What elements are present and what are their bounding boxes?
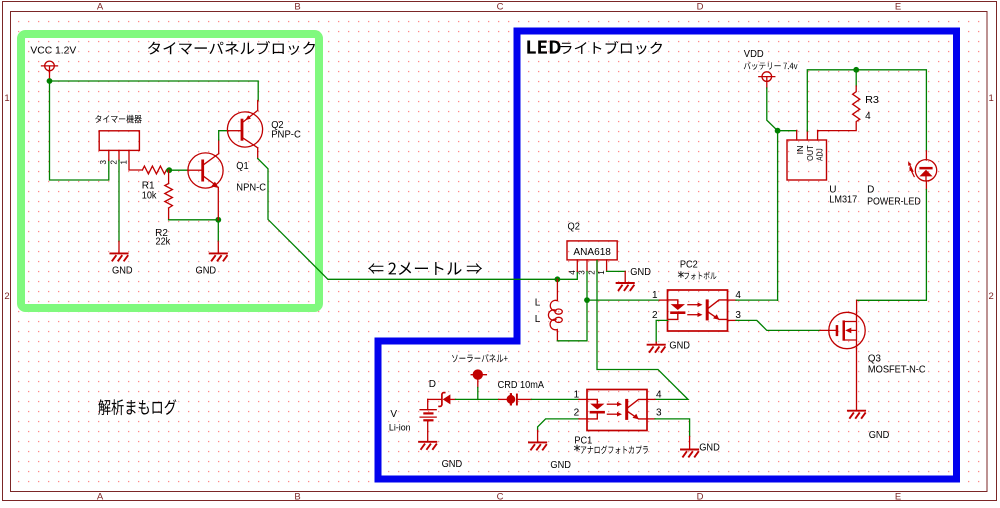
diode D POWER-LED <box>908 151 937 190</box>
svg-text:L: L <box>535 298 541 309</box>
Q3 source pin to GND <box>856 349 858 411</box>
svg-text:10k: 10k <box>142 191 158 202</box>
diode D <box>428 393 456 407</box>
inductor L coil <box>550 300 557 311</box>
transistor Q3 MOSFET-N <box>820 312 865 348</box>
svg-text:L: L <box>535 314 541 325</box>
svg-text:B: B <box>294 492 300 503</box>
ground stem ANA618 <box>624 271 626 283</box>
module ANA618 box <box>567 241 617 260</box>
PC1 pin1 lead <box>579 398 587 400</box>
svg-text:2: 2 <box>989 291 994 302</box>
wire CRD to PC1 pin1 <box>532 398 580 400</box>
PC2 pin1 lead <box>660 299 668 301</box>
svg-text:NPN-C: NPN-C <box>236 182 266 193</box>
ground GND PC1 pin3 <box>681 450 698 457</box>
optocoupler PC1 <box>587 390 647 431</box>
svg-text:2: 2 <box>109 160 118 165</box>
wire to ANA618 pin4 <box>557 271 577 279</box>
svg-text:GND: GND <box>869 430 890 441</box>
wire PC2 pin4 to VDD rail <box>736 299 778 301</box>
svg-text:2: 2 <box>652 310 658 321</box>
svg-text:R3: R3 <box>865 95 879 106</box>
ANA618 pin stubs <box>577 260 606 272</box>
svg-text:A: A <box>97 492 104 503</box>
wire Q1 collector to Q2 base <box>219 131 228 140</box>
svg-text:1: 1 <box>119 160 128 165</box>
ground stem left <box>118 241 120 253</box>
svg-text:CRD 10mA: CRD 10mA <box>498 380 545 391</box>
ground GND PC1 <box>529 442 546 449</box>
svg-text:D: D <box>867 185 874 196</box>
svg-text:V: V <box>390 409 397 420</box>
svg-text:2: 2 <box>4 291 9 302</box>
wire ANA618 pin1 to GND <box>607 270 626 272</box>
svg-text:D: D <box>697 2 704 13</box>
svg-text:POWER-LED: POWER-LED <box>867 196 921 207</box>
Q1 collector pin <box>218 140 220 154</box>
Q2 collector pin <box>257 148 259 159</box>
wire ANA618 pin2 down to PC1 pin4 <box>597 261 688 400</box>
PC1 pin4 lead <box>647 398 655 400</box>
transistor Q2 PNP <box>227 110 262 147</box>
svg-text:GND: GND <box>630 267 651 278</box>
label バッテリー 7.4v <box>744 62 798 70</box>
svg-text:PNP-C: PNP-C <box>271 129 301 140</box>
node solar panel terminal <box>473 369 483 379</box>
PC1 pin3 lead <box>647 418 655 420</box>
svg-text:E: E <box>895 2 901 13</box>
svg-text:3: 3 <box>656 407 662 418</box>
svg-text:4: 4 <box>656 389 662 400</box>
ground stem PC1 pin3 <box>689 436 691 449</box>
wire inductor bottom to ANA618 pin3 <box>557 271 587 340</box>
svg-text:B: B <box>294 2 300 13</box>
note 解析まもログ <box>98 399 176 415</box>
timer pin stubs <box>109 150 143 170</box>
svg-text:GND: GND <box>669 340 690 351</box>
Q2 emitter pin <box>257 101 259 111</box>
svg-text:Q2: Q2 <box>568 222 581 233</box>
inductor L leads <box>556 279 558 341</box>
wire junction to Q1 base <box>169 169 188 171</box>
svg-text:PC2: PC2 <box>680 259 698 270</box>
wire junction to LM317 IN <box>778 130 797 132</box>
wire solar node to main wire <box>477 388 479 400</box>
ground GND battery <box>419 442 436 449</box>
node junction R3 top <box>853 67 859 73</box>
svg-text:1: 1 <box>652 290 658 301</box>
resistor R2 <box>165 184 173 209</box>
resistor R1 <box>142 166 166 174</box>
svg-text:VCC 1.2V: VCC 1.2V <box>30 46 76 57</box>
ground GND Q3 <box>848 411 865 418</box>
title タイマーパネルブロック <box>148 41 315 55</box>
svg-text:Li-ion: Li-ion <box>389 422 411 433</box>
svg-text:C: C <box>497 492 504 503</box>
svg-text:LM317: LM317 <box>829 194 857 205</box>
wire junction down to PC2 pin4 <box>777 131 779 301</box>
wire PC2 pin3 to Q3 gate <box>736 320 820 330</box>
svg-text:22k: 22k <box>156 236 172 247</box>
node junction VDD/IN <box>775 128 781 134</box>
svg-text:D: D <box>429 379 436 390</box>
timer box タイマー機器 <box>99 131 139 151</box>
wire VCC down to timer pin3 <box>50 81 109 180</box>
svg-text:Q3: Q3 <box>868 353 881 364</box>
LM317 pin stubs <box>797 130 818 140</box>
ground GND ANA618 <box>617 283 634 290</box>
wire to PC2 pin1 <box>587 299 660 301</box>
svg-text:GND: GND <box>699 442 720 453</box>
svg-text:1: 1 <box>4 93 9 104</box>
transistor Q1 NPN <box>188 153 223 188</box>
PC2 pin3 lead <box>728 319 737 321</box>
ground stem right <box>217 241 219 253</box>
battery V Li-ion <box>420 399 436 441</box>
wire PC2 pin2 to GND <box>656 320 667 342</box>
wire Q2 collector to ANA618 (2 meter link) <box>258 159 558 280</box>
Q1 emitter pin <box>217 187 219 220</box>
svg-text:4: 4 <box>865 111 871 122</box>
svg-text:ADJ: ADJ <box>815 148 825 161</box>
asterisk mark <box>679 272 684 278</box>
node junction R1/R2/Q1 <box>166 167 172 173</box>
svg-text:1: 1 <box>597 270 606 275</box>
wire PC1 pin2 to GND <box>538 419 579 430</box>
wire LED to Q3 drain <box>857 190 927 301</box>
svg-text:E: E <box>895 492 901 503</box>
regulator U LM317 box <box>787 140 827 180</box>
svg-text:1: 1 <box>989 93 994 104</box>
svg-text:1: 1 <box>574 390 580 401</box>
node junction Q1 emitter <box>215 217 221 223</box>
svg-text:PC1: PC1 <box>574 435 592 446</box>
svg-text:GND: GND <box>442 459 463 470</box>
ground stem PC1 <box>537 430 539 442</box>
svg-text:GND: GND <box>550 460 571 471</box>
svg-text:MOSFET-N-C: MOSFET-N-C <box>868 365 926 376</box>
solar node stem <box>477 379 479 388</box>
svg-text:C: C <box>497 2 504 13</box>
svg-text:D: D <box>697 492 704 503</box>
LED light block (blue frame) <box>378 31 957 479</box>
wire timer pin2 to GND <box>118 160 120 241</box>
svg-text:Q1: Q1 <box>236 161 249 172</box>
label タイマー機器 <box>95 115 142 124</box>
svg-text:ANA618: ANA618 <box>573 247 611 258</box>
svg-text:GND: GND <box>196 266 217 277</box>
wire R2 to emitter junction <box>169 219 219 221</box>
timer panel block (green frame) <box>21 34 319 308</box>
wire junction to GND <box>217 220 219 242</box>
power symbol VCC <box>45 61 55 71</box>
wire R3 top lead <box>855 70 857 86</box>
PC1 pin2 lead <box>579 418 587 420</box>
svg-text:3: 3 <box>99 160 108 165</box>
svg-text:2: 2 <box>588 270 597 275</box>
svg-text:A: A <box>97 2 104 13</box>
node junction at VCC <box>47 78 53 84</box>
svg-text:3: 3 <box>735 310 741 321</box>
svg-text:IN: IN <box>795 146 805 155</box>
label フォトボル <box>684 272 716 280</box>
svg-text:2: 2 <box>574 407 580 418</box>
asterisk mark <box>575 445 580 451</box>
Q3 drain pin <box>856 300 858 312</box>
svg-text:3: 3 <box>578 270 587 275</box>
ground GND timer right <box>210 253 227 260</box>
power symbol VDD <box>762 72 772 82</box>
PC2 pin4 lead <box>728 299 737 301</box>
wire VCC to Q2 emitter <box>50 81 259 101</box>
optocoupler PC2 <box>668 290 728 331</box>
svg-text:GND: GND <box>112 265 133 276</box>
resistor R2 leads <box>168 170 170 220</box>
ground GND PC2 <box>648 345 665 352</box>
wire diode to CRD <box>456 398 499 400</box>
ground GND timer left <box>110 253 127 260</box>
wire VDD to IN junction <box>767 88 778 131</box>
ground stem PC2 <box>655 342 657 344</box>
note 2メートル <box>368 262 482 275</box>
label ソーラーパネル+ <box>452 354 508 362</box>
svg-text:VDD: VDD <box>744 49 764 60</box>
node junction pin3/PC2 <box>584 297 590 303</box>
wire OUT up and right <box>807 70 926 151</box>
title LEDライトブロック <box>527 41 560 54</box>
diode CRD <box>499 394 532 404</box>
svg-text:4: 4 <box>568 270 577 275</box>
node junction 2m wire / inductor <box>555 276 561 282</box>
wire PC1 pin3 to GND <box>655 419 690 437</box>
label アナログフォトカプラ <box>581 445 648 454</box>
resistor R3 <box>818 86 860 131</box>
